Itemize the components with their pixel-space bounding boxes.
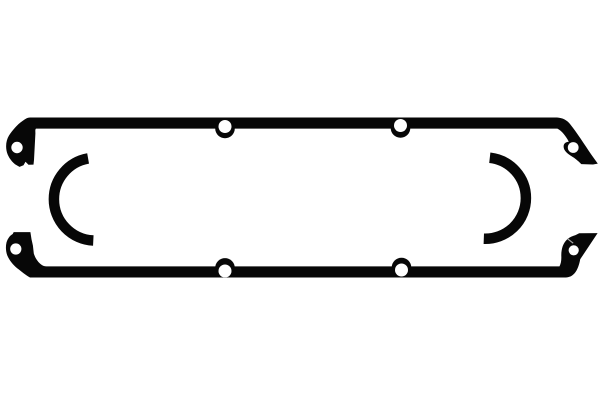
bolt hole B on bottom rail	[395, 264, 408, 277]
boss on bottom rail at hole A	[215, 258, 235, 278]
boss on bottom rail at hole B	[392, 258, 412, 278]
hole in top-right tab	[568, 142, 579, 153]
right half-moon camshaft seal gasket (reversed C arc)	[484, 158, 526, 239]
hole in top-left tab	[11, 142, 22, 153]
bolt hole A on top rail	[219, 120, 232, 133]
left half-moon camshaft seal gasket (C arc)	[54, 158, 93, 240]
crease between beak and ring boss on bottom-right tab	[568, 239, 574, 243]
boss on top rail at hole B	[391, 118, 411, 138]
bolt hole A on bottom rail	[219, 265, 232, 278]
hole in bottom-right tab	[569, 245, 579, 255]
boss on top rail at hole A	[215, 119, 235, 139]
bottom rocker-cover gasket rail with left and right end tabs	[6, 232, 598, 277]
top rocker-cover gasket rail with left and right end tabs	[6, 118, 598, 167]
hole in bottom-left tab	[10, 243, 21, 254]
bolt hole B on top rail	[394, 119, 407, 132]
